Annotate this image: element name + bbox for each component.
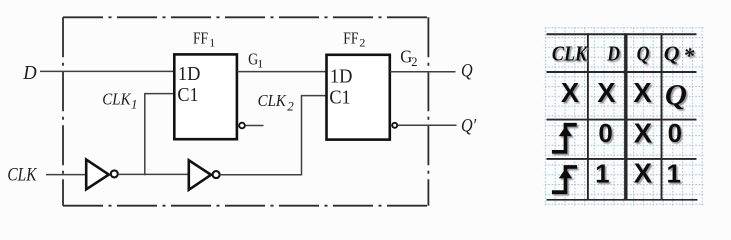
table column line D|Q (thick) [624,33,627,200]
svg-text:1: 1 [666,158,680,188]
svg-text:1: 1 [257,56,263,70]
graph paper background of truth table [544,27,705,206]
wire Q' output [398,124,457,126]
table row separator 1 [547,119,697,121]
wire CLK1 riser to FF1 C1 [145,94,174,176]
wire CLK input [46,174,87,176]
FF1 inverted output bubble [239,123,245,129]
svg-text:CLK: CLK [7,164,37,185]
svg-text:Q: Q [637,42,650,66]
label FF1 [193,29,215,49]
svg-text:2: 2 [411,55,417,69]
svg-text:FF: FF [343,29,358,48]
inverter U1 [86,160,118,190]
svg-text:CLK: CLK [552,42,589,66]
svg-text:Q′: Q′ [461,114,477,136]
svg-text:1: 1 [209,35,215,49]
latch FF2 [327,55,390,140]
svg-text:X: X [561,77,580,108]
label CLK2 [258,92,295,113]
svg-text:D: D [22,62,37,84]
wire D input [40,70,174,72]
row3 rising edge symbol [552,167,577,192]
table column line CLK|D [587,33,589,200]
wire FF1 inverted output stub [245,125,263,127]
table top border [547,33,697,35]
label G1 [248,51,263,71]
enclosure dash-dot border [63,17,428,205]
svg-text:C1: C1 [329,87,350,109]
row2 rising edge symbol [552,125,577,152]
svg-text:2: 2 [359,35,365,49]
svg-text:1: 1 [131,97,138,112]
svg-text:1D: 1D [178,64,201,86]
wire G1 net: FF1 Q to FF2 1D [237,71,326,73]
truth table grid lines [547,33,698,200]
svg-text:Q: Q [665,78,687,112]
svg-text:CLK: CLK [102,91,132,109]
svg-text:*: * [683,43,695,68]
svg-text:X: X [597,77,616,108]
svg-text:Q: Q [461,59,473,81]
svg-text:X: X [634,158,653,189]
svg-text:X: X [634,118,653,149]
label CLK1 [102,91,137,112]
svg-text:Q: Q [664,42,680,66]
svg-text:0: 0 [668,118,682,148]
svg-text:CLK: CLK [258,92,287,110]
label G2 [400,47,417,69]
wire CLK1 net: inverter U1 output to inverter U2 input [118,173,189,175]
svg-text:X: X [633,77,652,108]
inverter U2 [189,160,220,190]
svg-text:FF: FF [193,29,208,48]
table header separator [547,71,697,73]
wire Q output [390,71,456,73]
svg-text:1: 1 [595,158,609,188]
table column line Q|Q* [661,33,663,200]
wire CLK2 net: inverter U2 output to FF2 C1 [220,96,327,175]
latch FF1 [174,54,237,139]
svg-text:0: 0 [598,118,612,148]
truth table content [552,42,695,193]
svg-text:2: 2 [287,99,294,114]
svg-text:D: D [606,42,620,66]
label FF2 [343,29,365,49]
svg-text:C1: C1 [177,84,198,106]
FF2 inverted output bubble [392,123,397,128]
table bottom border [547,199,698,201]
table row separator 2 [547,158,697,160]
svg-text:1D: 1D [330,66,353,88]
